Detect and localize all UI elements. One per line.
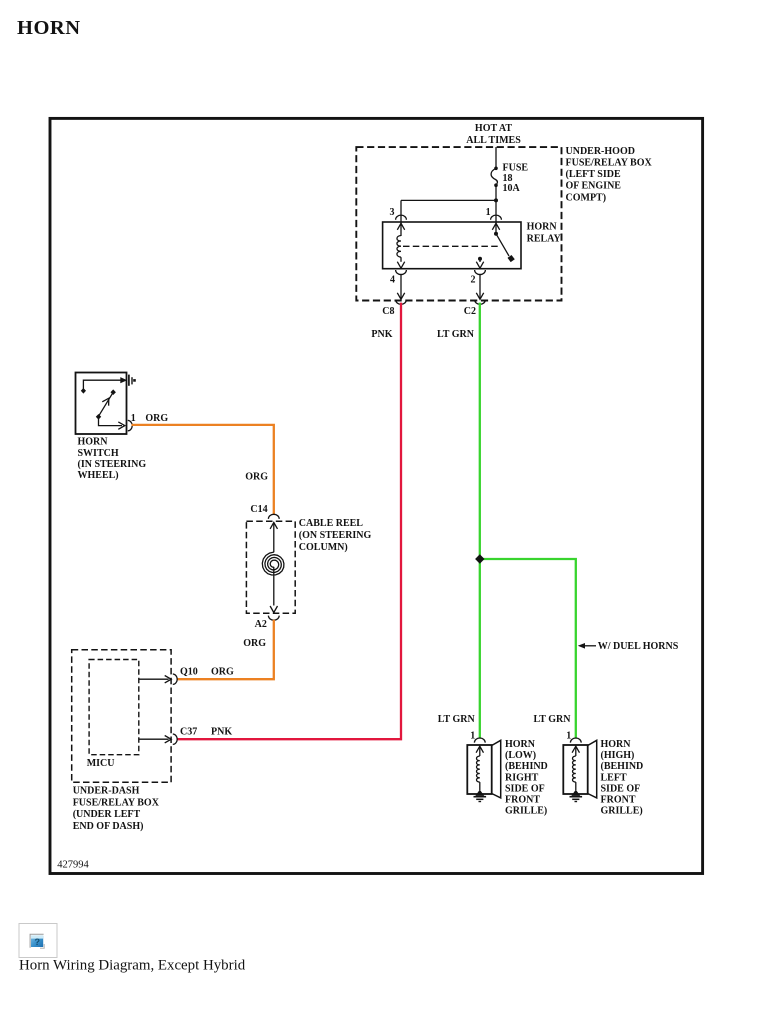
arrow down to pin 4 xyxy=(397,262,404,269)
external contact bar 2 xyxy=(131,377,133,384)
svg-text:LT GRN: LT GRN xyxy=(438,714,476,725)
svg-text:PNK: PNK xyxy=(211,727,232,738)
svg-text:CABLE REEL: CABLE REEL xyxy=(299,518,364,529)
svg-text:ORG: ORG xyxy=(145,413,168,424)
junction diamond on green wire xyxy=(475,554,484,563)
svg-text:C2: C2 xyxy=(464,306,476,317)
under-dash fuse/relay box (dashed) xyxy=(72,650,171,783)
svg-text:C37: C37 xyxy=(180,727,197,738)
arrow right at Q10 xyxy=(165,676,172,683)
fuse 18 10A xyxy=(494,167,498,171)
svg-text:?: ? xyxy=(35,937,41,947)
svg-text:(BEHIND: (BEHIND xyxy=(601,761,644,772)
horn high speaker trapezoid xyxy=(588,740,597,798)
horn low ground triangle xyxy=(475,790,484,796)
svg-text:SIDE OF: SIDE OF xyxy=(601,783,641,794)
svg-text:C14: C14 xyxy=(250,504,267,515)
wire junction to pin 3 xyxy=(401,199,496,201)
placeholder icon xyxy=(30,934,44,948)
connector cup pin 1 xyxy=(491,215,502,220)
arrow right at C37 xyxy=(165,736,172,743)
svg-text:3: 3 xyxy=(390,207,395,218)
horn low coil xyxy=(479,746,481,756)
horn high ground triangle xyxy=(571,790,580,796)
horn low speaker trapezoid xyxy=(492,740,501,798)
arrow down at C8 xyxy=(397,293,404,300)
svg-text:LT GRN: LT GRN xyxy=(534,714,572,725)
svg-text:HORN: HORN xyxy=(527,222,558,233)
svg-text:1: 1 xyxy=(131,413,136,424)
LT GRN wire from C2 down to horn low xyxy=(479,303,481,739)
switch blade xyxy=(99,393,113,416)
connector cup at switch pin 1 xyxy=(128,420,132,430)
svg-text:SIDE OF: SIDE OF xyxy=(505,783,545,794)
arrow right at switch pin 1 xyxy=(118,422,125,429)
connector cup C37 xyxy=(173,734,177,744)
svg-text:WHEEL): WHEEL) xyxy=(78,470,119,481)
Q10 lead xyxy=(139,678,169,680)
connector cup pin 3 xyxy=(396,215,407,220)
diagram frame border xyxy=(50,118,703,873)
svg-text:(IN STEERING: (IN STEERING xyxy=(78,459,147,470)
svg-text:HORN: HORN xyxy=(78,437,109,448)
external contact bar 1 xyxy=(128,375,130,386)
svg-text:(BEHIND: (BEHIND xyxy=(505,761,548,772)
wire from HOT AT down to fuse xyxy=(495,147,497,167)
connector cup horn high xyxy=(570,738,581,743)
relay dashed link line xyxy=(403,245,500,247)
svg-text:1: 1 xyxy=(566,730,571,741)
svg-text:UNDER-DASH: UNDER-DASH xyxy=(73,786,140,797)
cable reel box (dashed) xyxy=(246,521,295,613)
svg-text:4: 4 xyxy=(390,274,395,285)
svg-text:Q10: Q10 xyxy=(180,667,198,678)
cable reel lead bottom xyxy=(273,567,275,606)
arrow up into horn low xyxy=(476,746,483,753)
connector cup Q10 xyxy=(173,674,177,684)
svg-text:UNDER-HOOD: UNDER-HOOD xyxy=(566,146,635,157)
horn high ground bars xyxy=(570,796,583,798)
horn switch box SW1 xyxy=(76,373,127,435)
arrow down out of cable reel xyxy=(270,606,277,613)
svg-text:(ON STEERING: (ON STEERING xyxy=(299,530,372,541)
svg-text:END OF DASH): END OF DASH) xyxy=(73,821,144,832)
svg-text:W/ DUEL HORNS: W/ DUEL HORNS xyxy=(598,641,679,652)
svg-text:(UNDER LEFT: (UNDER LEFT xyxy=(73,809,141,820)
MICU box (dashed) xyxy=(89,660,139,755)
relay switch blade xyxy=(494,232,498,236)
pin 1 lead xyxy=(495,200,497,233)
relay coil xyxy=(397,236,401,258)
arrow up into horn high xyxy=(572,746,579,753)
svg-text:HOT AT: HOT AT xyxy=(475,123,512,134)
wire pin2 to C2 xyxy=(479,274,481,299)
svg-text:(LOW): (LOW) xyxy=(505,750,536,761)
connector cup C8 xyxy=(396,300,407,305)
svg-text:FUSE/RELAY BOX: FUSE/RELAY BOX xyxy=(73,797,160,808)
svg-text:LEFT: LEFT xyxy=(601,772,627,783)
svg-text:FRONT: FRONT xyxy=(505,795,540,806)
svg-text:GRILLE): GRILLE) xyxy=(505,806,547,817)
C37 lead xyxy=(139,738,169,740)
arrow down at C2 xyxy=(476,293,483,300)
svg-text:(LEFT SIDE: (LEFT SIDE xyxy=(566,169,621,180)
cable reel spiral xyxy=(262,552,284,575)
svg-text:FUSE: FUSE xyxy=(503,163,529,174)
svg-text:LT GRN: LT GRN xyxy=(437,329,475,340)
svg-text:COLUMN): COLUMN) xyxy=(299,542,348,553)
svg-text:1: 1 xyxy=(486,207,491,218)
connector cup pin 4 xyxy=(396,270,407,275)
horn high coil xyxy=(575,746,577,756)
PNK wire (red) from C8 down and left to C37 xyxy=(178,303,402,740)
svg-text:2: 2 xyxy=(471,274,476,285)
wire pin4 to C8 xyxy=(400,274,402,299)
horn low box xyxy=(467,745,491,794)
svg-text:1: 1 xyxy=(470,730,475,741)
horn high box xyxy=(563,745,587,794)
arrow up into cable reel xyxy=(270,522,277,529)
horn switch fixed contact path xyxy=(83,380,121,390)
svg-text:FRONT: FRONT xyxy=(601,795,636,806)
svg-text:C8: C8 xyxy=(382,306,394,317)
arrow down pin 2 xyxy=(476,262,483,269)
svg-text:PNK: PNK xyxy=(371,329,392,340)
arrow into relay pin 1 xyxy=(492,223,499,230)
switch output lead xyxy=(99,417,123,426)
svg-text:HORN: HORN xyxy=(505,739,536,750)
svg-text:ALL TIMES: ALL TIMES xyxy=(466,135,521,146)
arrowhead at box edge (top right) xyxy=(120,377,127,383)
wire fuse to junction xyxy=(495,185,497,200)
ORG wire from switch to cable reel C14 xyxy=(132,425,274,515)
relay pin 2 lead xyxy=(478,257,482,261)
svg-text:GRILLE): GRILLE) xyxy=(601,806,643,817)
svg-text:SWITCH: SWITCH xyxy=(78,448,119,459)
svg-text:COMPT): COMPT) xyxy=(566,192,607,203)
svg-text:HORN: HORN xyxy=(601,739,632,750)
svg-text:ORG: ORG xyxy=(245,472,268,483)
pin 3 lead xyxy=(400,200,402,236)
svg-text:OF ENGINE: OF ENGINE xyxy=(566,181,622,192)
svg-text:RELAY: RELAY xyxy=(527,233,562,244)
svg-text:10A: 10A xyxy=(503,183,521,194)
connector cup C2 xyxy=(475,300,486,305)
svg-text:RIGHT: RIGHT xyxy=(505,772,539,783)
connector cup A2 xyxy=(268,616,279,621)
svg-text:(HIGH): (HIGH) xyxy=(601,750,635,761)
connector cup pin 2 xyxy=(475,270,486,275)
external contact blob xyxy=(133,379,136,382)
horn relay box U1 xyxy=(383,222,521,269)
LT GRN branch wire to horn high xyxy=(480,559,576,739)
image placeholder box xyxy=(19,924,57,958)
junction node xyxy=(494,198,498,202)
arrow into relay pin 3 xyxy=(397,223,404,230)
svg-text:ORG: ORG xyxy=(243,638,266,649)
horn low ground bars xyxy=(474,796,487,798)
svg-text:HORN: HORN xyxy=(17,17,81,39)
connector cup horn low xyxy=(474,738,485,743)
under-hood fuse/relay box (dashed) xyxy=(356,147,561,300)
svg-text:Horn Wiring Diagram, Except Hy: Horn Wiring Diagram, Except Hybrid xyxy=(19,958,246,974)
blade arrow xyxy=(102,396,112,405)
connector cup C14 xyxy=(268,514,279,519)
svg-text:427994: 427994 xyxy=(57,860,89,871)
cable reel lead top xyxy=(273,522,275,552)
svg-text:ORG: ORG xyxy=(211,667,234,678)
svg-text:MICU: MICU xyxy=(87,758,115,769)
svg-text:A2: A2 xyxy=(255,619,267,630)
W/ DUEL HORNS callout arrow xyxy=(578,643,585,649)
svg-text:FUSE/RELAY BOX: FUSE/RELAY BOX xyxy=(566,158,653,169)
ORG wire from A2 down to Q10 xyxy=(178,620,274,679)
